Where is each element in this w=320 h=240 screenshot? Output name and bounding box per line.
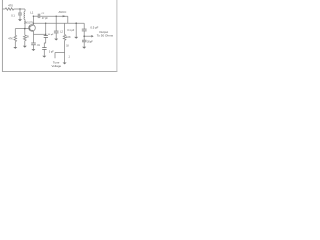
wire corner down from AVCC rail to bus <box>67 16 69 23</box>
wire bus corner to capacitor C6 <box>83 23 85 29</box>
ground arrow under R3 <box>23 46 27 48</box>
wire bus to resistor R4 <box>64 23 66 34</box>
transistor Q1 emitter lead <box>30 30 34 35</box>
junction bus at C4 <box>45 23 46 24</box>
svg-text:L1: L1 <box>30 11 34 15</box>
resistor R3 <box>24 35 27 41</box>
transistor Q1 emitter arrowhead <box>32 30 34 32</box>
wire C2 to AVCC corner <box>40 15 68 17</box>
wire C5 bottom lead <box>55 33 57 39</box>
wire C4 to varactor D1 <box>44 38 45 48</box>
junction bus at L2 drop <box>75 22 77 24</box>
svg-text:0.1: 0.1 <box>11 13 15 17</box>
resistor R1 470 <box>5 8 14 10</box>
wire from R1 to node A <box>14 8 25 10</box>
svg-text:50 pF: 50 pF <box>48 34 54 36</box>
capacitor C2 series <box>37 14 39 18</box>
svg-text:0.1 µF: 0.1 µF <box>67 29 74 32</box>
wire bus to capacitor C4 <box>45 23 47 35</box>
svg-text:Voltage: Voltage <box>51 64 61 68</box>
junction AVCC rail at C5 <box>56 16 57 17</box>
ground arrow under D1 <box>42 56 46 58</box>
wire emitter to capacitor C3 <box>32 34 34 43</box>
transistor Q1 collector lead <box>30 16 34 26</box>
svg-text:AVCC: AVCC <box>58 10 66 14</box>
ground arrow under C7 <box>82 47 86 49</box>
ground arrow under C1 <box>18 19 22 21</box>
output arrowhead <box>91 35 93 38</box>
svg-text:0.5 pF: 0.5 pF <box>90 25 98 29</box>
output wire <box>84 35 91 37</box>
wire base node to resistor R2 <box>14 29 16 36</box>
svg-text:1K: 1K <box>66 45 69 47</box>
emitter wire horizontal <box>33 33 45 35</box>
transistor Q1 base bar <box>29 26 31 31</box>
junction node A <box>19 8 20 9</box>
svg-text:10K: 10K <box>66 36 71 39</box>
ground arrow under R4 lead <box>63 63 67 65</box>
wire D1 bottom lead <box>43 50 45 56</box>
wire capacitor C1 top lead <box>19 9 21 13</box>
svg-text:To 50 Ohms: To 50 Ohms <box>97 33 114 37</box>
wire R3 bottom lead <box>24 41 26 46</box>
svg-text:47 pF: 47 pF <box>42 18 48 20</box>
AVCC power arrow flag <box>63 15 67 17</box>
junction collector corner <box>33 16 34 17</box>
wire base node to Q1 base <box>15 28 29 30</box>
junction output node <box>83 35 85 37</box>
wire C7 bottom lead <box>83 42 85 47</box>
border frame right <box>116 0 118 72</box>
wire R4 bottom lead <box>64 41 66 63</box>
tune voltage terminal wire <box>54 53 56 59</box>
capacitor C7 shunt <box>82 39 87 41</box>
ground arrow under R2 <box>13 47 17 49</box>
svg-text:2K: 2K <box>26 36 29 39</box>
wire R2 bottom lead <box>14 42 16 47</box>
svg-text:47K: 47K <box>8 36 13 40</box>
svg-text:3 pF: 3 pF <box>49 50 54 53</box>
wire capacitor C1 bottom lead <box>19 15 21 19</box>
ground arrow under C5 <box>54 39 58 41</box>
capacitor C4 <box>44 35 48 37</box>
ground arrow under L2 drop <box>74 37 78 39</box>
wire base node to resistor R3 <box>24 29 26 35</box>
svg-text:30pF: 30pF <box>87 40 93 43</box>
transistor Q1 body <box>29 25 36 32</box>
border frame bottom <box>2 70 117 72</box>
wire C6 to output node <box>83 31 85 36</box>
tune voltage wire horizontal <box>55 52 65 54</box>
capacitor C1 <box>18 12 22 14</box>
wire output node to capacitor C7 <box>83 36 85 40</box>
junction emitter wire at C4 <box>45 34 46 35</box>
wire collector to capacitor C2 <box>33 15 38 17</box>
ground arrow under C3 <box>31 49 35 51</box>
choke L2 drop wire <box>75 23 77 37</box>
capacitor C3 <box>31 42 36 44</box>
wire input from left border to R1 <box>3 8 6 10</box>
resistor R2 <box>14 35 17 42</box>
wire L1 bottom to base node <box>24 20 26 29</box>
capacitor C6 output coupling <box>82 28 87 30</box>
wire C3 bottom lead <box>32 45 34 49</box>
capacitor C5 bypass <box>54 30 59 32</box>
svg-text:2N5179: 2N5179 <box>24 21 33 24</box>
junction base node <box>24 28 26 30</box>
wire node A to inductor L1 <box>24 9 26 11</box>
inductor L1 <box>24 12 25 20</box>
resistor R4 <box>63 35 66 41</box>
border frame left <box>1 0 3 72</box>
varactor D1 <box>42 47 46 49</box>
wire bypass branch to capacitor C5 <box>55 16 57 31</box>
bus wire horizontal <box>33 22 84 24</box>
svg-text:470: 470 <box>8 4 13 8</box>
junction collector at bus <box>33 23 34 24</box>
